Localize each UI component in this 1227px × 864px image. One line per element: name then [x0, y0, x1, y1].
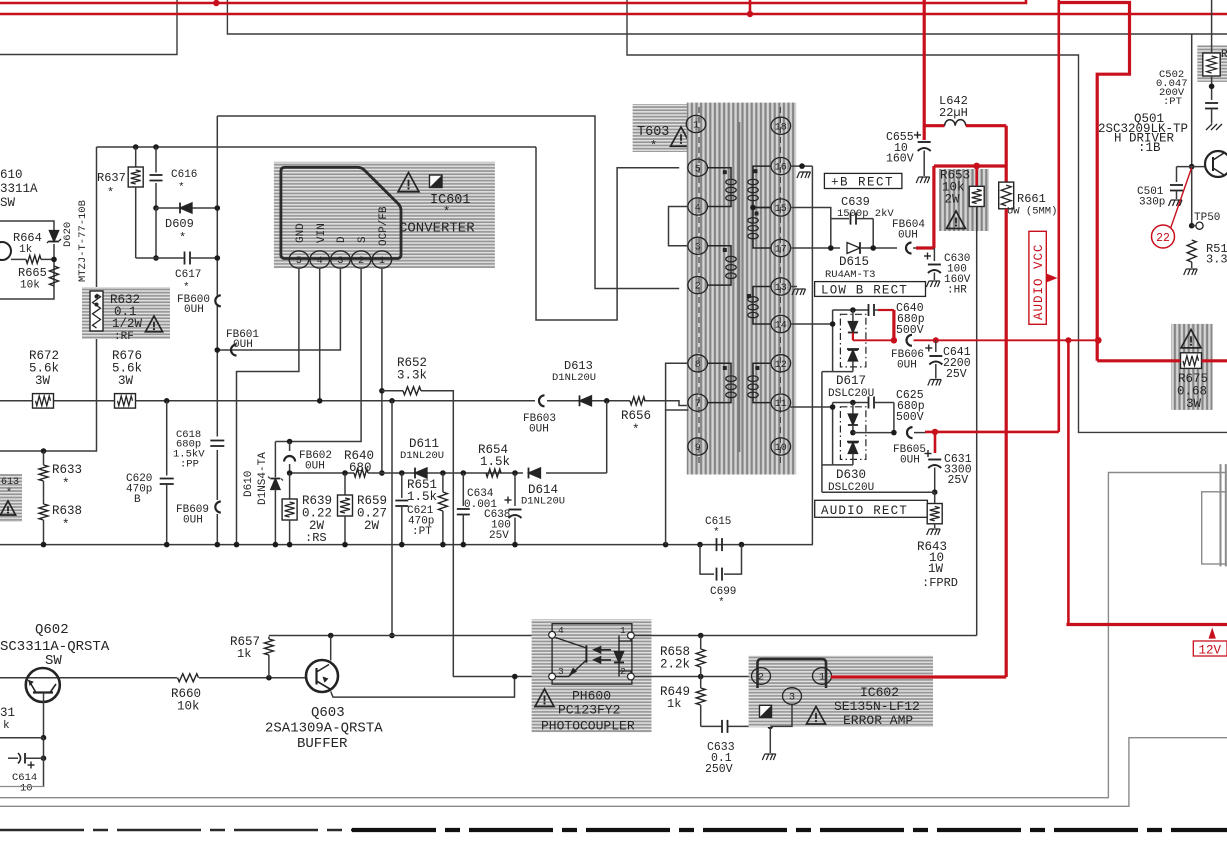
- wire gnd bus corner to x812: [812, 544, 814, 546]
- wire red through R675: [1097, 359, 1180, 362]
- svg-text:D611: D611: [409, 437, 439, 451]
- wire collector line y635: [269, 635, 543, 637]
- ground C633: [769, 726, 771, 753]
- wire Q602 base down: [43, 693, 45, 738]
- svg-text::PT: :PT: [1163, 96, 1182, 108]
- transformer T603 pin 12: [771, 355, 791, 372]
- wire R653 bottom long vertical: [976, 207, 978, 636]
- svg-text:T603: T603: [637, 125, 669, 140]
- ic IC602 pin3: [783, 688, 802, 705]
- svg-text:3.3k: 3.3k: [397, 369, 427, 383]
- svg-text:1k: 1k: [19, 244, 33, 256]
- wire base line y677: [0, 677, 177, 679]
- optocoupler PH600 pin3: [549, 673, 556, 680]
- svg-text:1: 1: [620, 625, 626, 636]
- svg-text:Q602: Q602: [35, 622, 69, 638]
- resistor R640: [354, 469, 368, 477]
- svg-text:3: 3: [695, 242, 701, 253]
- resistor R633: [41, 448, 47, 454]
- transformer T603 pin 2: [688, 277, 708, 294]
- svg-text:3: 3: [558, 666, 564, 677]
- wire T603 pin15 to C639 net: [790, 208, 831, 219]
- transformer T603 pin 17: [771, 239, 791, 256]
- capacitor C625: [868, 397, 870, 409]
- diode D611: [415, 468, 427, 478]
- wire red vertical x924 to L642: [923, 0, 926, 127]
- svg-text:D620: D620: [62, 222, 74, 247]
- transformer T603 pin 16: [771, 158, 791, 175]
- svg-text:R665: R665: [18, 266, 47, 280]
- svg-text:*: *: [178, 182, 185, 194]
- svg-text:1.5k: 1.5k: [480, 455, 510, 469]
- transformer T603 pin 11: [771, 394, 791, 411]
- svg-text:2: 2: [758, 673, 764, 684]
- wire IC601 pin2 to D610: [275, 269, 361, 442]
- diode D610: [274, 442, 276, 478]
- wire hot ground bus y544: [0, 544, 813, 546]
- svg-text:Q603: Q603: [311, 705, 345, 721]
- svg-text:7: 7: [695, 399, 701, 410]
- svg-text:0UH: 0UH: [233, 339, 253, 351]
- transformer winding 12-11: [753, 363, 772, 374]
- wire T603 pin13 stub: [790, 286, 797, 288]
- wire drain top route to T603 pin2: [217, 116, 679, 289]
- svg-text:2: 2: [695, 282, 701, 293]
- svg-text:9: 9: [695, 443, 701, 454]
- transformer winding 3-2: [707, 246, 731, 255]
- label 12V arrow: [1209, 628, 1216, 639]
- capacitor C501: [1176, 167, 1178, 182]
- svg-text:5: 5: [296, 256, 302, 267]
- wire Q501 vertical x1191: [1191, 34, 1193, 167]
- svg-text:*: *: [713, 527, 720, 539]
- svg-text:3: 3: [337, 256, 343, 267]
- wire C614 box: [0, 786, 45, 788]
- wire pin2 to IC602 line: [634, 676, 752, 678]
- wire D630 center tap: [852, 425, 854, 433]
- wire red low-B output: [914, 339, 1099, 341]
- node D610 top: [287, 439, 293, 445]
- svg-text:17: 17: [775, 245, 787, 256]
- svg-text:160V: 160V: [886, 153, 914, 166]
- optocoupler PH600 hatched block: [532, 619, 652, 732]
- svg-text:3W: 3W: [1186, 397, 1202, 411]
- svg-text:0UH: 0UH: [529, 424, 549, 436]
- wire T603 pin8-pin7 jumper: [666, 363, 689, 410]
- transformer T603 pin 14: [771, 315, 791, 332]
- capacitor C614: [8, 757, 18, 759]
- ferrite bead FB609: [215, 502, 221, 513]
- resistor R657: [268, 637, 270, 640]
- svg-text:C617: C617: [175, 269, 201, 281]
- optocoupler PH600 phototransistor: [585, 645, 587, 662]
- svg-text:IC602: IC602: [860, 685, 899, 700]
- ic IC601 pin 3: [331, 251, 351, 268]
- wire Q501 base: [1177, 166, 1206, 168]
- node red junction on rail 1: [213, 0, 219, 6]
- svg-text:D1NL20U: D1NL20U: [552, 372, 596, 384]
- svg-text:22µH: 22µH: [939, 106, 968, 120]
- svg-text:*: *: [107, 186, 114, 200]
- wire red +B output: [916, 246, 934, 249]
- svg-text:S: S: [357, 236, 369, 243]
- svg-text:R5: R5: [1221, 49, 1227, 61]
- svg-text:31: 31: [0, 706, 15, 720]
- wire pin8 net down to gnd bus: [665, 410, 667, 545]
- svg-text:VIN: VIN: [316, 223, 328, 243]
- resistor R654: [486, 469, 501, 477]
- wire x392 vertical: [391, 401, 393, 636]
- transformer T603 pin 18: [771, 117, 791, 134]
- wire frame line inner: [0, 473, 1227, 798]
- svg-text:R661: R661: [1017, 192, 1046, 206]
- transformer T603 hatched body: [687, 103, 796, 475]
- ground R643: [927, 529, 941, 535]
- wire IC601 pin3 to FB601: [217, 269, 340, 350]
- resistor R643: [934, 492, 936, 503]
- wire main bus y400: [0, 400, 33, 402]
- svg-text:*: *: [443, 205, 450, 219]
- transformer T603 pin 4: [688, 198, 708, 215]
- diode D617 upper element: [850, 307, 856, 313]
- wire black top-left L corner: [0, 0, 177, 55]
- svg-text:AUDIO VCC: AUDIO VCC: [1032, 243, 1046, 320]
- transformer T603 pin 7: [688, 394, 708, 411]
- svg-text:BUFFER: BUFFER: [297, 736, 348, 752]
- svg-text:SE135N-LF12: SE135N-LF12: [834, 699, 920, 714]
- svg-text:0UH: 0UH: [900, 455, 920, 467]
- capacitor C639: [831, 218, 849, 220]
- resistor R637: [135, 147, 137, 167]
- ferrite bead FB606: [907, 335, 913, 346]
- node C502 top: [1209, 84, 1215, 90]
- svg-text:*: *: [62, 477, 70, 491]
- svg-text:TP50: TP50: [1194, 212, 1220, 224]
- svg-text::HR: :HR: [947, 285, 967, 297]
- connector box bottom right: [1202, 492, 1227, 564]
- transformer T603 label hatched block: [633, 104, 688, 152]
- capacitor C655: [923, 126, 926, 140]
- resistor R5xx hatched block top right: [1197, 45, 1227, 82]
- svg-text:PC123FY2: PC123FY2: [558, 703, 620, 718]
- svg-text:*: *: [632, 423, 640, 437]
- svg-text:R637: R637: [97, 171, 126, 185]
- svg-text:4: 4: [317, 256, 323, 267]
- svg-text:330p: 330p: [1139, 197, 1165, 209]
- svg-text:1: 1: [693, 121, 699, 132]
- wire y473 line: [290, 472, 354, 474]
- wire red IC602 pin1 output: [831, 675, 1006, 678]
- ground C655: [916, 177, 930, 183]
- svg-text:16: 16: [775, 163, 787, 174]
- transformer winding 16-15: [753, 166, 772, 178]
- capacitor C630: [933, 248, 935, 261]
- inductor L642: [924, 124, 944, 127]
- label 12V: [1193, 641, 1227, 656]
- capacitor C502: [1205, 102, 1218, 104]
- ground C630: [926, 281, 940, 287]
- svg-text:1: 1: [819, 673, 825, 684]
- wire red vertical x1058 down to audio rect: [1058, 3, 1061, 432]
- transformer T603 pin 1: [686, 115, 706, 132]
- wire drain node x217 vertical: [216, 116, 218, 296]
- svg-text:*: *: [179, 231, 186, 245]
- svg-text:12: 12: [775, 360, 787, 371]
- ground pin16: [797, 172, 811, 178]
- svg-text:*: *: [62, 518, 70, 532]
- wire C502 chain vertical: [1211, 0, 1213, 53]
- transformer T603 pin 9: [688, 438, 708, 455]
- transistor Q602: [26, 668, 60, 702]
- svg-text::FPRD: :FPRD: [922, 576, 958, 590]
- resistor R515: [1187, 240, 1196, 262]
- optocoupler PH600 pin2: [628, 673, 635, 680]
- svg-text:0UH: 0UH: [898, 230, 918, 242]
- svg-text:C616: C616: [171, 169, 197, 181]
- svg-text:4: 4: [695, 203, 701, 214]
- resistor R672: [33, 394, 54, 409]
- svg-text:1500p 2kV: 1500p 2kV: [837, 208, 894, 220]
- svg-text:R633: R633: [52, 463, 82, 477]
- node x392 bottom: [389, 633, 395, 639]
- diode D609: [153, 205, 159, 211]
- wire red 12V line: [1066, 623, 1227, 626]
- svg-text:0UH: 0UH: [184, 304, 204, 316]
- transformer T603 core: [738, 122, 741, 452]
- svg-text::PT: :PT: [412, 526, 432, 538]
- optocoupler PH600 warning triangle: [535, 689, 554, 707]
- svg-text:500V: 500V: [896, 411, 924, 424]
- svg-text:*: *: [183, 282, 190, 294]
- svg-text::RF: :RF: [114, 331, 134, 343]
- wire R656 to pin7 net: [645, 400, 666, 402]
- wire page dashed boundary: [0, 829, 352, 832]
- svg-text:610: 610: [0, 168, 23, 182]
- transistor Q501: [1205, 151, 1227, 177]
- resistor R639: [289, 473, 291, 499]
- svg-text:D1NS4-TA: D1NS4-TA: [257, 452, 269, 505]
- wire T603 pin4-pin3 jumper: [669, 207, 689, 246]
- ground R515: [1184, 269, 1198, 275]
- diode D617 package box: [832, 310, 834, 372]
- wire D614 to y400: [606, 401, 608, 473]
- svg-text:5: 5: [695, 164, 701, 175]
- svg-text:10: 10: [775, 443, 787, 454]
- transistor Q603: [306, 660, 338, 692]
- zener D620: [49, 231, 58, 242]
- node red R653 tap: [973, 163, 980, 170]
- wire red top rail 2: [0, 13, 1227, 16]
- ic IC601 pin 2: [351, 251, 371, 268]
- ferrite bead FB601: [231, 345, 237, 356]
- wire black top bus y34: [227, 0, 1227, 34]
- resistor R664: [11, 258, 26, 260]
- svg-text:D610: D610: [243, 471, 255, 497]
- svg-text:LOW B RECT: LOW B RECT: [821, 284, 908, 298]
- svg-text:R638: R638: [52, 504, 82, 518]
- capacitor C633: [701, 725, 722, 727]
- svg-text::PP: :PP: [180, 459, 199, 471]
- svg-text:3: 3: [789, 693, 795, 704]
- svg-text:10k: 10k: [20, 280, 40, 292]
- node red junction rail2 x750: [747, 11, 753, 17]
- svg-text:3W: 3W: [35, 374, 51, 388]
- ic IC602 pin2: [752, 668, 771, 685]
- wire red audio output: [914, 432, 925, 434]
- svg-text:12V: 12V: [1199, 644, 1222, 658]
- ferrite bead FB604: [906, 243, 912, 254]
- svg-text:25V: 25V: [489, 530, 509, 542]
- resistor R676: [115, 394, 136, 409]
- optocoupler PH600 led: [618, 636, 620, 652]
- diode D614: [529, 468, 541, 478]
- wire T603 pin14 to D617: [790, 323, 833, 325]
- label AUDIO RECT: [815, 500, 928, 517]
- svg-text:25V: 25V: [946, 368, 967, 381]
- ferrite bead FB605: [907, 427, 913, 438]
- capacitor C618: [210, 440, 224, 442]
- diode D615: [847, 242, 860, 253]
- capacitor C621: [401, 473, 403, 498]
- svg-text:CONVERTER: CONVERTER: [399, 221, 475, 237]
- svg-text:*: *: [6, 487, 12, 499]
- svg-text:15: 15: [775, 204, 787, 215]
- wire T603 pin16 net: [790, 165, 812, 167]
- wire IC601 pin1 down: [381, 269, 383, 473]
- svg-text:2: 2: [358, 256, 364, 267]
- ic IC601 half square icon: [430, 175, 443, 188]
- svg-text:4: 4: [558, 625, 564, 636]
- svg-text:1W: 1W: [928, 562, 944, 576]
- svg-text:1.5k: 1.5k: [407, 490, 437, 504]
- capacitor C699: [700, 545, 714, 575]
- svg-text:OCP/FB: OCP/FB: [378, 206, 390, 246]
- svg-text:10k: 10k: [177, 700, 200, 714]
- transformer T603 dashed limbs: [698, 107, 700, 467]
- wire secondary ground vertical x812: [811, 166, 813, 544]
- svg-text:1/2W: 1/2W: [112, 317, 143, 331]
- capacitor C634: [462, 473, 464, 506]
- svg-text:UW (5MM): UW (5MM): [1007, 206, 1057, 218]
- resistor R632 hatched block: [82, 287, 170, 339]
- svg-text::1B: :1B: [1138, 141, 1161, 155]
- svg-text:2W: 2W: [945, 193, 961, 207]
- transformer T603 pin 5: [688, 159, 708, 176]
- svg-text:GND: GND: [295, 223, 307, 243]
- svg-text:3.3: 3.3: [1206, 253, 1227, 267]
- svg-text:18: 18: [775, 122, 787, 133]
- svg-text:10: 10: [20, 783, 33, 795]
- wire D630 bottom return: [822, 464, 833, 466]
- wire IC601 pin4 to vin bus: [319, 269, 321, 401]
- node Q501 base junction: [1189, 164, 1195, 170]
- svg-text:AUDIO RECT: AUDIO RECT: [821, 504, 908, 518]
- svg-text:14: 14: [775, 321, 787, 332]
- svg-text:SW: SW: [45, 653, 62, 669]
- svg-text:MTZJ-T-77-10B: MTZJ-T-77-10B: [77, 200, 89, 282]
- svg-text:11: 11: [775, 399, 787, 410]
- transformer T603 pin 10: [771, 438, 791, 455]
- svg-text:k: k: [3, 720, 10, 732]
- transformer T603 pin 3: [688, 237, 708, 254]
- ic IC602 half square icon: [760, 705, 772, 717]
- svg-text:8: 8: [695, 360, 701, 371]
- wire Q603 emitter to PH600 pin3: [331, 677, 515, 698]
- svg-text:1k: 1k: [667, 697, 681, 711]
- svg-text:PHOTOCOUPLER: PHOTOCOUPLER: [541, 719, 635, 734]
- wire red top segment to H driver: [1058, 0, 1061, 3]
- wire T603 pin17 rectifier line: [790, 247, 840, 249]
- wire R658 net corner: [976, 635, 977, 637]
- wire frame line outer: [0, 738, 1227, 807]
- transformer T603 warning triangle: [671, 127, 692, 146]
- svg-text:+B RECT: +B RECT: [831, 176, 894, 190]
- label LOW B RECT: [815, 282, 926, 297]
- wire red to 12V rail: [1067, 340, 1070, 624]
- wire black top bus y55: [627, 0, 1227, 432]
- node R637 top: [133, 144, 139, 150]
- capacitor C631: [934, 432, 937, 453]
- svg-text:R664: R664: [13, 231, 42, 245]
- resistor R653 element: [975, 166, 978, 186]
- capacitor C617: [155, 208, 157, 258]
- ic IC601 warning triangle: [398, 173, 419, 192]
- resistor R675 warning triangle: [1181, 330, 1201, 348]
- svg-text:25V: 25V: [948, 474, 969, 487]
- ground pin13: [792, 289, 806, 295]
- transformer winding 15-17: [753, 208, 772, 217]
- diode D617 lower element: [847, 348, 859, 350]
- transformer T603 pin 8: [688, 355, 708, 372]
- svg-text:2.2k: 2.2k: [660, 658, 690, 672]
- ic IC601 outline: [281, 167, 401, 258]
- svg-text:613: 613: [1, 477, 19, 488]
- optocoupler PH600 body: [552, 624, 632, 684]
- ground C641: [928, 380, 942, 386]
- wire red D617 center tap: [852, 333, 854, 341]
- label +B RECT: [824, 173, 902, 188]
- resistor R652: [382, 390, 403, 392]
- capacitor C640: [868, 304, 870, 316]
- transformer T603 pin 13: [771, 278, 791, 295]
- wire vcc line y147: [97, 146, 537, 148]
- resistor R653 hatched block: [939, 169, 989, 231]
- label AUDIO VCC: [1029, 231, 1046, 324]
- svg-text:R656: R656: [621, 409, 651, 423]
- svg-text:0UH: 0UH: [897, 360, 917, 372]
- resistor R675 element: [1181, 353, 1202, 369]
- resistor R658: [696, 649, 705, 667]
- svg-text:RU4AM-T3: RU4AM-T3: [825, 269, 875, 281]
- optocoupler PH600 pin1: [628, 632, 635, 639]
- capacitor C638: [514, 473, 516, 506]
- ic IC601 pin 5: [289, 251, 309, 268]
- svg-text:D1NL20U: D1NL20U: [400, 450, 444, 462]
- resistor R661: [1005, 126, 1008, 182]
- wire vcc route to T603 pin5: [536, 147, 679, 320]
- svg-text:D609: D609: [165, 217, 194, 231]
- svg-text:1k: 1k: [237, 647, 251, 661]
- ferrite bead FB603: [539, 395, 545, 406]
- svg-text:IC601: IC601: [430, 193, 471, 208]
- svg-text:D: D: [336, 236, 348, 243]
- svg-text:0UH: 0UH: [183, 515, 203, 527]
- wire red audio vcc vertical: [1005, 209, 1008, 677]
- svg-text:3W: 3W: [118, 374, 134, 388]
- svg-text:2SA1309A-QRSTA: 2SA1309A-QRSTA: [265, 721, 383, 737]
- svg-text:ERROR AMP: ERROR AMP: [843, 713, 913, 728]
- capacitor C615: [716, 538, 718, 551]
